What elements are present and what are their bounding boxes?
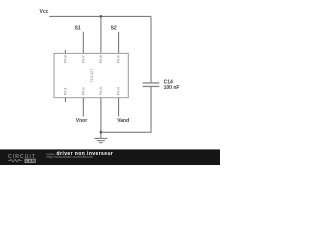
svg-text:Pin8: Pin8	[63, 54, 68, 63]
wire pin4 to node Vand	[118, 98, 120, 117]
wire pin3 (GND) down to ground	[100, 98, 102, 138]
svg-text:S2: S2	[111, 26, 117, 32]
svg-text:Pin7: Pin7	[80, 54, 85, 63]
ground	[94, 138, 107, 142]
svg-text:S1: S1	[75, 26, 81, 32]
wire pin2 to node Vnor	[82, 98, 84, 117]
IC U1 TC1427 body	[54, 53, 128, 97]
wire pin1 stub	[64, 98, 66, 102]
svg-text:Pin1: Pin1	[63, 86, 68, 95]
wire Vcc rail	[49, 15, 151, 17]
watermark footer bar	[0, 149, 220, 165]
wire node S1 to pin7	[82, 32, 84, 54]
svg-text:Pin3: Pin3	[98, 86, 103, 95]
svg-text:TC1427: TC1427	[89, 68, 94, 83]
watermark logo wave + LAB	[9, 160, 22, 162]
wire pin8 stub	[64, 50, 66, 54]
svg-text:Pin5: Pin5	[116, 54, 121, 63]
svg-text:100 nF: 100 nF	[164, 85, 180, 91]
svg-text:Vnor: Vnor	[76, 118, 87, 124]
svg-text:http://circuitlab.com/c6kv4n: http://circuitlab.com/c6kv4n	[46, 154, 93, 159]
svg-text:Pin6: Pin6	[98, 54, 103, 63]
wire Vcc rail down to C14	[150, 16, 152, 82]
junction dot on Vcc rail at pin6	[100, 15, 103, 18]
wire pin6 (VDD) to Vcc rail	[100, 16, 102, 53]
capacitor C14 plates	[143, 83, 160, 87]
svg-text:Pin2: Pin2	[80, 86, 85, 95]
svg-text:Pin4: Pin4	[116, 86, 121, 95]
wire node S2 to pin5	[118, 32, 120, 54]
svg-text:LAB: LAB	[26, 158, 36, 163]
svg-text:Vand: Vand	[117, 118, 129, 124]
junction dot pin3/C14	[100, 131, 103, 134]
svg-text:Vcc: Vcc	[40, 9, 49, 15]
wire junction to C14 bottom	[101, 87, 151, 132]
